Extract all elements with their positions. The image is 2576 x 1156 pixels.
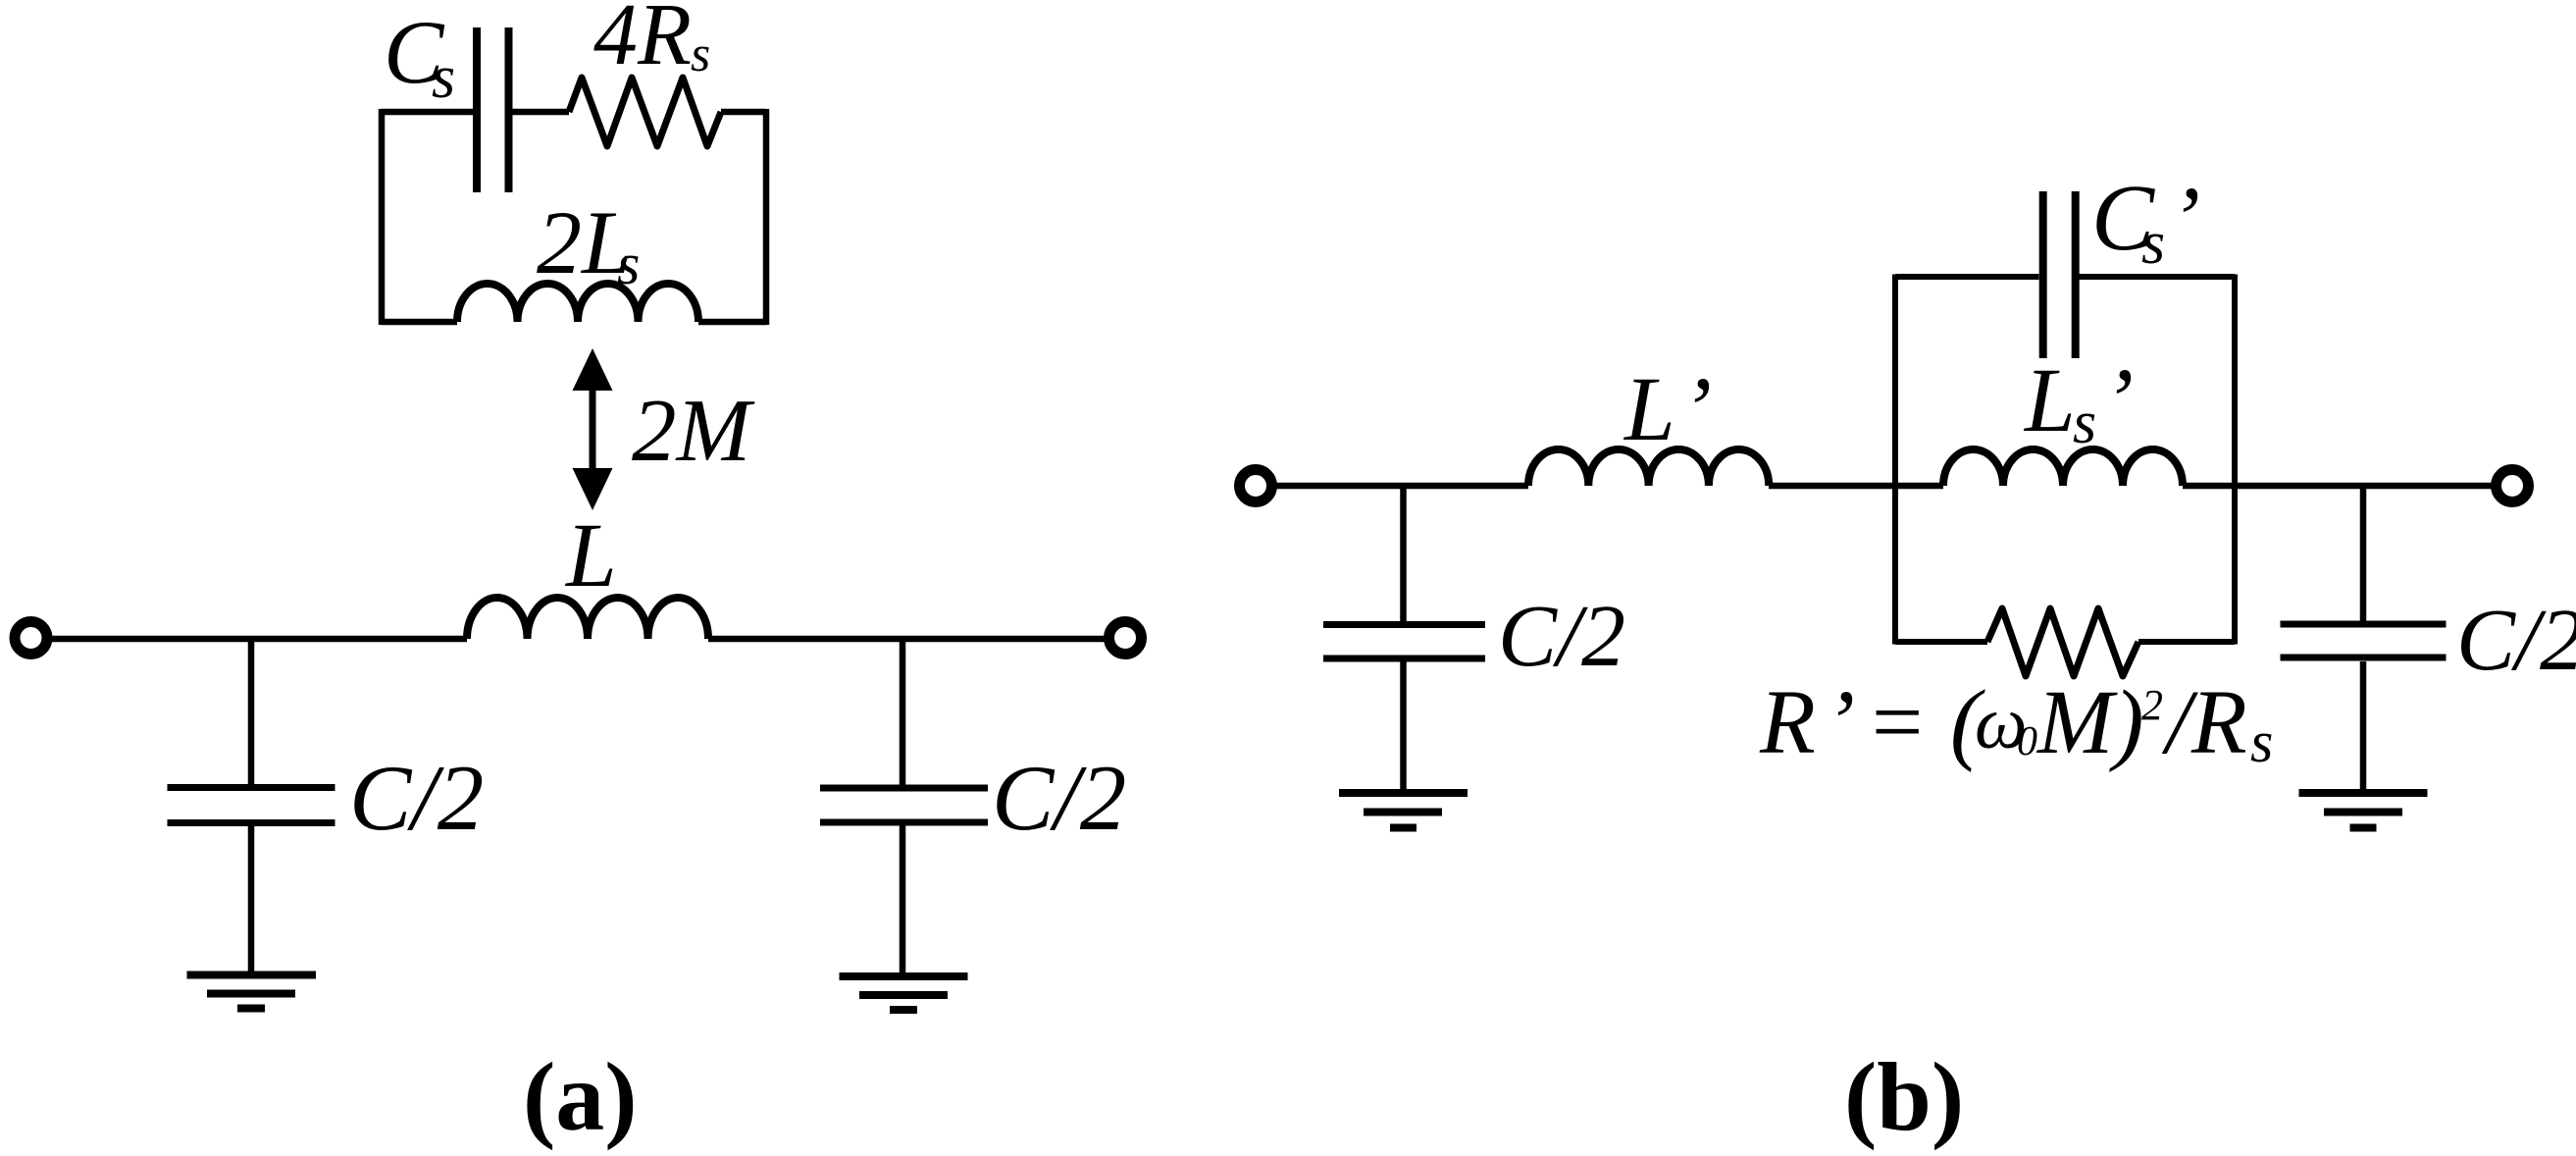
wire L' to Ls' (b) <box>1769 483 1943 490</box>
mutual coupling arrow 2M <box>573 348 613 510</box>
svg-text:R: R <box>1759 672 1816 773</box>
svg-text:’: ’ <box>1681 359 1712 460</box>
svg-text:L: L <box>1623 359 1675 460</box>
capacitor Cs <box>477 27 509 192</box>
wire left edge of secondary loop (a) <box>379 109 386 325</box>
svg-text:4R: 4R <box>593 0 692 83</box>
ground left (b) <box>1339 793 1468 828</box>
wire bottom edge of parallel box right segment (b) <box>2138 639 2235 645</box>
svg-text:s: s <box>2073 390 2096 456</box>
svg-text:2: 2 <box>2141 681 2163 729</box>
port terminal right (a) <box>1109 622 1142 655</box>
capacitor C/2 left (a) <box>168 788 335 823</box>
wire bottom-right of secondary loop (a) <box>698 319 766 326</box>
svg-text:M): M) <box>2035 672 2143 773</box>
svg-text:(b): (b) <box>1844 1042 1964 1151</box>
label 4Rs <box>593 0 710 83</box>
svg-text:C/2: C/2 <box>1498 588 1625 685</box>
wire right edge of secondary loop (a) <box>763 109 770 325</box>
wire top-left of secondary loop (a) <box>382 109 473 116</box>
wire left shunt branch upper (b) <box>1400 486 1407 621</box>
svg-text:/R: /R <box>2161 672 2247 773</box>
label (b) <box>1844 1042 1964 1151</box>
label L' <box>1623 359 1712 460</box>
label 2M <box>632 381 755 480</box>
svg-text:s: s <box>691 26 710 82</box>
label Ls' <box>2023 350 2134 456</box>
svg-text:s: s <box>2250 709 2273 774</box>
svg-text:L: L <box>564 505 617 606</box>
svg-text:’: ’ <box>1825 672 1855 773</box>
svg-text:C/2: C/2 <box>992 746 1126 850</box>
ground right (a) <box>840 976 968 1010</box>
wire bottom-left of secondary loop (a) <box>382 319 457 326</box>
port terminal left (b) <box>1240 470 1272 502</box>
label C/2 right (b) <box>2456 592 2576 689</box>
wire top edge of parallel box left segment (b) <box>1895 274 2039 280</box>
label C/2 right (a) <box>992 746 1126 850</box>
label Cs' <box>2091 165 2200 277</box>
label R' = (w0M)^2/Rs <box>1759 672 2273 774</box>
wire left port to L' (b) <box>1276 483 1528 490</box>
ground right (b) <box>2299 793 2428 828</box>
wire right shunt branch lower (b) <box>2360 661 2367 790</box>
wire inductor L to right port (a) <box>708 636 1105 643</box>
svg-text:L: L <box>2023 350 2076 451</box>
svg-text:s: s <box>432 44 455 111</box>
svg-text:=: = <box>1866 672 1928 773</box>
capacitor C/2 left (b) <box>1323 625 1485 659</box>
label Cs <box>384 2 455 111</box>
wire right edge of parallel box (b) <box>2232 275 2238 645</box>
label L <box>564 505 617 606</box>
capacitor Cs' <box>2043 191 2076 358</box>
label 2Ls <box>537 192 640 296</box>
wire right shunt branch upper (a) <box>900 639 906 785</box>
svg-text:(a): (a) <box>523 1042 638 1151</box>
port terminal right (b) <box>2497 470 2529 502</box>
port terminal left (a) <box>15 622 47 655</box>
wire Ls' to right port (b) <box>2183 483 2492 490</box>
wire left shunt branch upper (a) <box>248 639 255 785</box>
wire top-right of secondary loop (a) <box>721 109 766 116</box>
wire between Cs and 4Rs <box>505 109 570 116</box>
inductor L <box>467 598 708 639</box>
wire left edge of parallel box (b) <box>1892 275 1898 645</box>
resistor R' <box>1987 608 2138 676</box>
wire top edge of parallel box right segment (b) <box>2080 274 2236 280</box>
svg-text:s: s <box>2141 210 2165 277</box>
svg-text:0: 0 <box>2017 719 2037 764</box>
svg-text:’: ’ <box>2103 350 2134 451</box>
wire right shunt branch lower (a) <box>900 825 906 973</box>
wire right shunt branch upper (b) <box>2360 486 2367 621</box>
capacitor C/2 right (a) <box>820 788 988 822</box>
svg-text:C/2: C/2 <box>349 746 484 850</box>
wire left shunt branch lower (b) <box>1400 661 1407 790</box>
svg-text:C/2: C/2 <box>2456 592 2576 689</box>
label C/2 left (a) <box>349 746 484 850</box>
label C/2 left (b) <box>1498 588 1625 685</box>
capacitor C/2 right (b) <box>2281 624 2447 657</box>
inductor L' <box>1528 449 1769 486</box>
wire bottom edge of parallel box left segment (b) <box>1895 639 1987 645</box>
svg-text:’: ’ <box>2170 169 2200 270</box>
wire input to shunt node (a) <box>52 636 467 643</box>
inductor 2Ls <box>457 284 698 322</box>
svg-text:2M: 2M <box>632 381 755 480</box>
inductor Ls' <box>1943 449 2183 486</box>
svg-text:s: s <box>617 232 640 296</box>
wire left shunt branch lower (a) <box>248 826 255 972</box>
resistor 4Rs <box>569 78 721 146</box>
ground left (a) <box>187 975 317 1009</box>
label (a) <box>523 1042 638 1151</box>
